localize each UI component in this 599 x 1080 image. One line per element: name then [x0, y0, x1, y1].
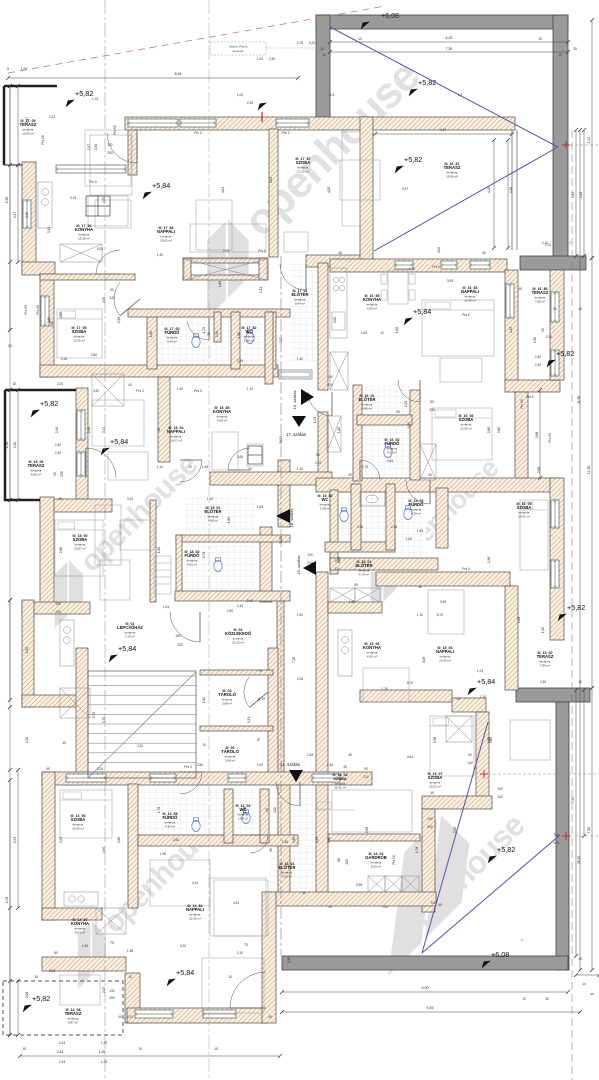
svg-text:Prs 0: Prs 0 [184, 765, 192, 769]
svg-text:250: 250 [109, 996, 115, 1000]
room FÜRDŐ III_17_60 [165, 327, 181, 344]
svg-text:1,60: 1,60 [337, 427, 341, 433]
svg-text:2,68: 2,68 [537, 467, 541, 473]
svg-text:4,00: 4,00 [437, 247, 441, 253]
svg-text:17. szállás: 17. szállás [286, 432, 306, 437]
svg-text:2,60: 2,60 [117, 837, 121, 843]
svg-text:12,65 m²: 12,65 m² [73, 338, 85, 342]
svg-text:2,00: 2,00 [223, 249, 229, 253]
svg-text:7,20: 7,20 [292, 657, 296, 663]
svg-text:1,65: 1,65 [202, 465, 208, 469]
svg-text:2,30: 2,30 [247, 101, 253, 105]
svg-text:8,36 m²: 8,36 m² [371, 864, 381, 868]
svg-text:3,08: 3,08 [422, 657, 426, 663]
gray terrace wall top-right: right bar [553, 15, 568, 258]
beds detail lines [55, 302, 548, 810]
svg-text:95: 95 [354, 583, 358, 587]
blue diagonal line bottom 1 [422, 722, 488, 953]
svg-text:1,78: 1,78 [157, 807, 161, 813]
svg-text:Prs 90: Prs 90 [520, 399, 524, 408]
wall band taroló2 [200, 726, 273, 731]
wall wall wc14|eloter [260, 789, 269, 843]
svg-text:210: 210 [363, 775, 369, 779]
svg-text:75: 75 [244, 943, 248, 947]
room TERASZ III_16_86 [532, 287, 549, 304]
svg-text:2,48: 2,48 [487, 557, 491, 563]
svg-text:8,53 m²: 8,53 m² [75, 930, 85, 934]
svg-text:7,55: 7,55 [587, 827, 591, 834]
svg-text:Prs 0: Prs 0 [526, 395, 534, 399]
svg-text:2,90: 2,90 [227, 609, 233, 613]
svg-text:Prs 0: Prs 0 [136, 389, 144, 393]
svg-text:60: 60 [54, 951, 58, 955]
svg-text:240: 240 [109, 296, 115, 300]
svg-text:3,98 m²: 3,98 m² [222, 701, 232, 705]
gray terrace wall bottom-right: bottom bar [282, 956, 568, 970]
svg-text:+5,84: +5,84 [118, 644, 136, 653]
svg-text:2,68: 2,68 [535, 432, 539, 438]
svg-text:15: 15 [34, 975, 38, 979]
room GARDRÓB III_14_02 [365, 852, 387, 869]
svg-text:4,95 m²: 4,95 m² [367, 306, 377, 310]
svg-text:45: 45 [430, 791, 434, 795]
svg-text:8,38 m²: 8,38 m² [31, 472, 41, 476]
svg-text:2,30: 2,30 [25, 737, 29, 743]
svg-text:9,87 m²: 9,87 m² [68, 1020, 78, 1024]
svg-text:Prk 0: Prk 0 [194, 131, 202, 135]
svg-text:4,50: 4,50 [93, 389, 99, 393]
wall band eloter16|furdo16 [357, 415, 412, 425]
svg-text:58: 58 [157, 428, 161, 432]
svg-text:140: 140 [553, 841, 559, 845]
svg-text:1,80: 1,80 [227, 517, 231, 523]
svg-text:90: 90 [468, 753, 472, 757]
svg-text:Gabion Plania: Gabion Plania [229, 45, 248, 49]
svg-text:15: 15 [138, 1047, 142, 1051]
svg-text:2,93: 2,93 [59, 837, 63, 843]
svg-text:1,23: 1,23 [313, 417, 317, 423]
svg-text:4,65: 4,65 [387, 459, 393, 463]
svg-text:1,60: 1,60 [407, 422, 411, 428]
svg-text:90: 90 [53, 472, 57, 476]
svg-text:9,45: 9,45 [427, 1006, 434, 1010]
room SZOBA III_16_06 [459, 414, 474, 431]
room KÖZLEKEDŐ III_02 [225, 628, 252, 645]
svg-text:4,04: 4,04 [221, 187, 225, 193]
svg-text:6,20: 6,20 [446, 36, 453, 40]
svg-text:2,40: 2,40 [215, 331, 219, 337]
svg-text:1,10: 1,10 [157, 465, 163, 469]
svg-text:Prk 90: Prk 90 [41, 135, 45, 144]
svg-text:5,70: 5,70 [407, 681, 413, 685]
svg-text:Prs 90: Prs 90 [36, 305, 40, 314]
svg-text:4,15: 4,15 [509, 327, 513, 333]
svg-text:7: 7 [521, 939, 525, 941]
wall shower stub 17 [214, 312, 221, 342]
svg-text:2,10: 2,10 [315, 461, 321, 465]
wall wall mid|furdo15 [386, 484, 395, 550]
svg-text:2,12: 2,12 [49, 115, 55, 119]
room FÜRDŐ III_16_02 [385, 438, 401, 455]
svg-text:1,78: 1,78 [415, 847, 419, 853]
svg-text:2,10: 2,10 [546, 335, 552, 339]
svg-text:1,65: 1,65 [257, 505, 263, 509]
svg-text:45: 45 [482, 251, 486, 255]
wall band above eloter18 [210, 472, 332, 485]
svg-text:14. szállás: 14. szállás [280, 762, 300, 767]
svg-text:2,17: 2,17 [25, 117, 29, 123]
svg-text:+6,08: +6,08 [491, 950, 509, 959]
wall band under furdo/wc row [138, 835, 298, 846]
svg-text:3,00: 3,00 [333, 317, 337, 323]
blue diagonal line bottom 2 [422, 835, 560, 953]
svg-text:11,38: 11,38 [577, 396, 581, 404]
svg-text:Prs 0: Prs 0 [432, 265, 440, 269]
wall west wall szoba 15_07 lower [422, 809, 435, 912]
svg-text:230: 230 [177, 643, 183, 647]
svg-text:2,43: 2,43 [59, 1060, 65, 1064]
wall band taroló3 [200, 778, 273, 783]
svg-text:75: 75 [207, 332, 211, 336]
svg-text:250: 250 [107, 151, 113, 155]
wall bottom wall apt14 [127, 1008, 267, 1023]
svg-text:2,60: 2,60 [102, 847, 106, 853]
room FÜRDŐ III_15_03 [409, 499, 425, 516]
svg-text:4,32 m²: 4,32 m² [387, 450, 397, 454]
svg-text:4,39 m²: 4,39 m² [411, 511, 421, 515]
svg-text:2,43: 2,43 [237, 604, 243, 608]
room KONYHA III_14_87 [71, 918, 89, 935]
svg-text:1,40: 1,40 [157, 253, 163, 257]
wall wall furdo|wc [231, 312, 240, 369]
svg-text:28,10: 28,10 [577, 856, 581, 864]
wall partition konyha|szoba 17 thin [40, 274, 135, 280]
svg-text:2,55: 2,55 [540, 680, 546, 684]
svg-text:+5,84: +5,84 [110, 437, 128, 446]
svg-text:Prs 0: Prs 0 [462, 313, 470, 317]
svg-text:10: 10 [558, 53, 562, 57]
svg-text:1,65: 1,65 [349, 600, 355, 604]
svg-text:1,98 m²: 1,98 m² [320, 506, 330, 510]
svg-text:+5,84: +5,84 [176, 968, 194, 977]
svg-text:2,30: 2,30 [535, 363, 541, 367]
svg-text:45: 45 [118, 1015, 122, 1019]
svg-text:+5,82: +5,82 [418, 78, 436, 87]
wall corridor east wall mid2 [318, 412, 328, 478]
svg-text:19,08 m²: 19,08 m² [446, 174, 458, 178]
room WC III_15_82 [318, 494, 333, 511]
room ELŐTÉR III_17_01 [292, 289, 309, 306]
svg-text:45: 45 [343, 765, 347, 769]
svg-text:Prk 0: Prk 0 [89, 180, 97, 184]
svg-text:4,25: 4,25 [180, 944, 186, 948]
svg-text:4,64: 4,64 [233, 901, 239, 905]
svg-text:5: 5 [7, 67, 9, 71]
svg-text:13,01 m²: 13,01 m² [429, 784, 441, 788]
wall partition furdo row top [128, 309, 290, 317]
svg-text:Prs 90: Prs 90 [24, 305, 28, 314]
svg-text:10: 10 [202, 743, 206, 747]
room SZOBA III_14_06 [71, 814, 86, 831]
svg-text:2,40: 2,40 [13, 442, 17, 448]
svg-text:2,78: 2,78 [202, 552, 206, 558]
svg-text:4,15: 4,15 [487, 187, 491, 193]
svg-text:2,75: 2,75 [297, 41, 303, 45]
svg-text:11,41 m²: 11,41 m² [334, 785, 346, 789]
property line dashed right [571, 130, 573, 1080]
gray terrace wall bottom-right: right bar [556, 702, 569, 970]
wall wall furdo15 east [436, 488, 448, 548]
svg-text:+5,82: +5,82 [404, 155, 422, 164]
wall corridor east wall upper [318, 263, 328, 390]
svg-text:100: 100 [327, 375, 333, 379]
svg-text:45: 45 [338, 251, 342, 255]
svg-text:22,36 m²: 22,36 m² [189, 916, 201, 920]
svg-text:7,20 m²: 7,20 m² [125, 634, 135, 638]
svg-text:10: 10 [320, 47, 324, 51]
svg-text:20: 20 [590, 992, 594, 996]
svg-text:1,60: 1,60 [395, 327, 399, 333]
svg-text:2,93: 2,93 [13, 837, 17, 843]
svg-text:10: 10 [322, 53, 326, 57]
svg-text:III_14_04: III_14_04 [333, 773, 348, 777]
svg-text:3,30: 3,30 [137, 744, 143, 748]
svg-text:1,40: 1,40 [297, 467, 303, 471]
wall wall nappali18 west [158, 377, 170, 462]
svg-text:1,20: 1,20 [480, 695, 486, 699]
wall niche bottom strip [183, 275, 267, 280]
svg-text:90: 90 [428, 473, 432, 477]
svg-text:Prs 90: Prs 90 [548, 433, 552, 442]
wall band under furdo18 [175, 591, 290, 601]
svg-text:30: 30 [348, 473, 352, 477]
wall step wall y380 [505, 380, 560, 392]
windows terasz18 wall [77, 410, 85, 440]
svg-text:9,00: 9,00 [422, 986, 429, 990]
svg-text:4,04: 4,04 [269, 177, 273, 183]
svg-text:Prs 90: Prs 90 [392, 855, 396, 864]
svg-text:15: 15 [22, 1047, 26, 1051]
svg-text:7,86 m²: 7,86 m² [535, 299, 545, 303]
svg-text:45: 45 [456, 697, 460, 701]
svg-text:15: 15 [228, 975, 232, 979]
svg-text:100: 100 [307, 553, 313, 557]
svg-text:3,95: 3,95 [440, 600, 446, 604]
svg-text:4,15: 4,15 [571, 192, 575, 198]
svg-text:210: 210 [273, 807, 277, 813]
svg-text:1,10: 1,10 [247, 387, 253, 391]
wall band gardrob bottom [266, 892, 436, 906]
svg-text:7,30: 7,30 [446, 47, 453, 51]
svg-text:12,59 m²: 12,59 m² [460, 426, 472, 430]
svg-text:4,44 m²: 4,44 m² [167, 339, 177, 343]
svg-text:1,80: 1,80 [237, 332, 241, 338]
window wall left of step [56, 165, 126, 173]
windows left wall [23, 200, 31, 228]
svg-text:90: 90 [265, 808, 269, 812]
svg-text:7: 7 [569, 241, 571, 245]
windows apt14 bottom [135, 1010, 173, 1018]
wall corridor wall stairs [277, 600, 284, 782]
wall band under furdo15 [330, 558, 438, 570]
svg-text:2,36: 2,36 [297, 677, 303, 681]
wall east wall szoba 15_07 [476, 712, 489, 808]
wall left exterior wall upper [22, 162, 36, 274]
svg-text:1,50: 1,50 [177, 387, 183, 391]
svg-text:2,30: 2,30 [533, 337, 537, 343]
room TERASZ III_17_09 [20, 119, 37, 136]
red dashed boundary line [8, 6, 385, 73]
svg-text:08: 08 [418, 585, 422, 589]
svg-text:2,30: 2,30 [55, 451, 61, 455]
svg-text:2,40: 2,40 [25, 212, 29, 218]
svg-text:1,39: 1,39 [101, 1041, 107, 1045]
svg-text:1,65: 1,65 [406, 537, 412, 541]
wall jog x125 [125, 973, 140, 1023]
wall furdo18 left wall [176, 535, 182, 595]
wall wall szoba 17_87 right [269, 129, 278, 257]
svg-text:7,55: 7,55 [571, 797, 575, 803]
svg-text:1,98 m²: 1,98 m² [238, 816, 248, 820]
svg-text:1,75: 1,75 [202, 327, 206, 333]
svg-text:1,50: 1,50 [541, 627, 545, 633]
svg-text:2,88: 2,88 [292, 837, 296, 843]
wall corridor wall mid [278, 460, 290, 527]
svg-text:2,75: 2,75 [362, 465, 368, 469]
windows apt16 east [506, 284, 514, 318]
svg-text:2,68: 2,68 [365, 827, 369, 833]
room ELŐTÉR III_15_01 [356, 560, 373, 577]
svg-text:53: 53 [8, 344, 12, 348]
svg-text:+5,82: +5,82 [556, 349, 574, 358]
wall niche stub e [259, 258, 268, 280]
svg-text:Prs 0: Prs 0 [258, 249, 266, 253]
gray wall right (terasz 15_60 bottom) [516, 688, 590, 702]
svg-text:100: 100 [497, 787, 503, 791]
svg-text:2,60: 2,60 [59, 312, 63, 318]
wall band nappali15 bottom-left [360, 690, 452, 702]
svg-text:2,45: 2,45 [82, 944, 88, 948]
wardrobe X boxes [60, 244, 472, 934]
svg-text:1,98 m²: 1,98 m² [244, 338, 254, 342]
wall niche top strip [183, 258, 267, 263]
svg-text:3,20: 3,20 [127, 497, 133, 501]
svg-text:10: 10 [380, 331, 384, 335]
room TERASZ III_15_60 [537, 651, 554, 668]
wall stair west wall [76, 648, 88, 782]
svg-text:80: 80 [337, 858, 341, 862]
svg-text:5,31: 5,31 [247, 717, 251, 723]
svg-text:15: 15 [12, 382, 16, 386]
room NAPPALI III_15_04 [436, 646, 454, 663]
svg-text:2,10: 2,10 [542, 241, 548, 245]
svg-text:2,60: 2,60 [497, 427, 501, 433]
windows top wall [128, 119, 178, 127]
svg-text:140: 140 [467, 761, 473, 765]
svg-text:1,00: 1,00 [237, 93, 243, 97]
svg-text:18. szállás: 18. szállás [289, 509, 294, 528]
gray terrace wall top-right: top bar [316, 15, 568, 29]
svg-text:2,17: 2,17 [87, 144, 91, 150]
wall niche stub w [183, 258, 191, 280]
terasz 14_08 bottom-left dashed [3, 981, 123, 1035]
svg-text:20,63 m²: 20,63 m² [160, 238, 172, 242]
svg-text:45: 45 [518, 287, 522, 291]
svg-text:4,79 m²: 4,79 m² [359, 572, 369, 576]
wall east wall nappali14 [262, 892, 276, 1023]
wall east wall apt15 nappali [505, 586, 518, 690]
svg-text:1,65: 1,65 [361, 331, 367, 335]
svg-text:+5,82: +5,82 [567, 603, 585, 612]
svg-text:45: 45 [348, 753, 352, 757]
svg-text:15: 15 [214, 1047, 218, 1051]
room ELŐTÉR III_14_01 [279, 862, 296, 879]
svg-text:3,20: 3,20 [309, 41, 315, 45]
svg-text:4,47: 4,47 [440, 128, 447, 132]
wall wall furdo14|wc [224, 789, 233, 843]
svg-text:45: 45 [268, 1015, 272, 1019]
wall corner wall near eloter17 [306, 255, 369, 267]
wall step wall corner [128, 130, 137, 175]
svg-text:17,23 m²: 17,23 m² [297, 169, 309, 173]
room SZOBA III_15_07 [428, 772, 443, 789]
svg-text:4,68 m²: 4,68 m² [208, 518, 218, 522]
svg-text:2,13: 2,13 [404, 401, 408, 407]
svg-text:4,10: 4,10 [192, 881, 198, 885]
room NAPPALI III_16_83 [461, 286, 479, 303]
svg-text:5,70: 5,70 [409, 267, 415, 271]
windows apt16 top [395, 261, 413, 269]
bathroom fixtures blue [192, 330, 412, 832]
svg-text:2,06: 2,06 [5, 442, 9, 449]
wall inner terrace 16_87 left wall / apt17 east [360, 117, 373, 265]
wall wall wc15 [330, 490, 338, 574]
gray wall right mid (terasz 16_86 top) [520, 256, 586, 270]
room KONYHA III_18_85 [213, 406, 231, 423]
svg-text:3,50: 3,50 [50, 321, 54, 327]
svg-text:2,10: 2,10 [237, 951, 243, 955]
svg-text:160: 160 [55, 602, 61, 606]
svg-text:2,43: 2,43 [59, 1041, 65, 1045]
wall left exterior wall mid [40, 274, 54, 377]
svg-text:15: 15 [578, 307, 582, 311]
svg-text:45: 45 [62, 741, 66, 745]
svg-text:45: 45 [128, 383, 132, 387]
room TÁROLÓ III_04 [218, 689, 236, 706]
svg-text:15: 15 [578, 680, 582, 684]
axis line x=209 [208, 0, 210, 1080]
svg-text:2,10: 2,10 [202, 697, 206, 703]
svg-text:80: 80 [430, 400, 434, 404]
wall wall furdo16 right [410, 390, 420, 480]
svg-text:1,60: 1,60 [25, 647, 29, 653]
svg-text:45: 45 [46, 767, 50, 771]
svg-text:2,12: 2,12 [587, 137, 591, 144]
svg-text:1,00: 1,00 [257, 57, 263, 61]
room SZOBA III_15_05 [517, 502, 532, 519]
svg-text:10: 10 [188, 465, 192, 469]
wall outer east wall2 [550, 478, 564, 640]
svg-text:2,98: 2,98 [356, 883, 362, 887]
svg-text:3,12: 3,12 [102, 427, 106, 433]
wall band nappali15 bottom-right [452, 698, 486, 712]
svg-text:4,88 m²: 4,88 m² [217, 418, 227, 422]
section line vertical center [280, 256, 282, 956]
svg-text:1,20: 1,20 [382, 687, 388, 691]
door arcs [107, 133, 137, 163]
svg-text:2,65: 2,65 [237, 455, 243, 459]
svg-text:230: 230 [429, 408, 435, 412]
